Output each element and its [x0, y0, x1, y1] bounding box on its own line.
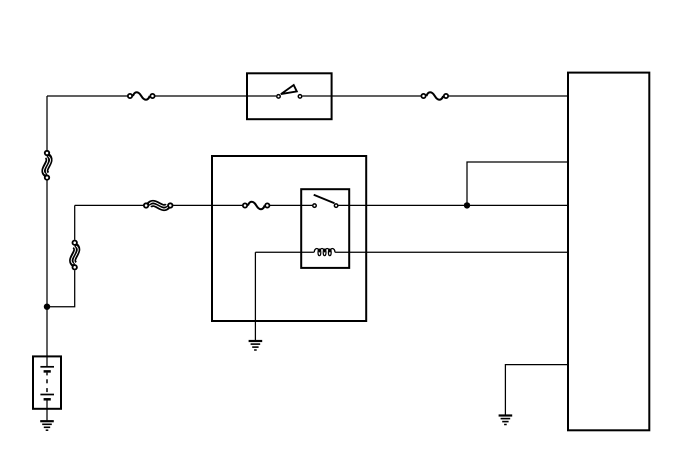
connector C1 — [43, 151, 50, 180]
junction B dot — [464, 202, 470, 208]
connector C2 — [71, 241, 78, 270]
relay K1 coil L1 — [314, 249, 335, 256]
battery B1 cells — [40, 356, 54, 408]
wire relay coil left to ground drop — [255, 251, 314, 253]
wire battery to ground G1 — [46, 409, 48, 421]
wire junction A to relay branch riser — [47, 270, 75, 306]
junction A dot — [44, 304, 50, 310]
fuse F3 — [243, 202, 270, 210]
wire junction A to battery — [46, 307, 48, 357]
fuse F1 — [128, 92, 155, 100]
wire relay feed to connector C3 — [75, 204, 144, 206]
wire connector C3 to fuse F3 — [173, 204, 242, 206]
wire switch S1 to fuse F2 — [302, 95, 421, 97]
switch S1 contacts and blade — [277, 85, 302, 98]
wire connector C1 to junction A — [46, 180, 48, 306]
switch S1 box — [247, 73, 332, 119]
battery B1 box — [33, 356, 61, 408]
wire fuse F2 to control unit — [449, 95, 568, 97]
ground G2 — [249, 341, 263, 350]
junction box M1 — [212, 156, 366, 321]
control unit U1 box — [568, 73, 649, 431]
fuse F2 — [421, 92, 448, 100]
relay K1 box — [301, 189, 349, 268]
connector C3 — [144, 202, 173, 209]
wire relay K1 output to control unit — [338, 204, 568, 206]
wire relay coil right to control unit — [335, 251, 568, 253]
wire fuse F1 to switch S1 — [155, 95, 276, 97]
wire riser to relay feed line — [74, 205, 76, 239]
ground G1 — [40, 421, 54, 430]
wire fuse F3 to relay K1 — [270, 204, 312, 206]
wire left vertical drop from top feed — [46, 96, 48, 150]
wire top feed from battery node to fuse — [47, 95, 127, 97]
wire junction B up and to control unit — [467, 162, 568, 205]
ground G3 — [499, 416, 513, 425]
wire control unit ground lead — [505, 365, 568, 415]
relay K1 switch contacts and blade — [313, 195, 338, 208]
wire coil ground drop — [254, 252, 256, 340]
